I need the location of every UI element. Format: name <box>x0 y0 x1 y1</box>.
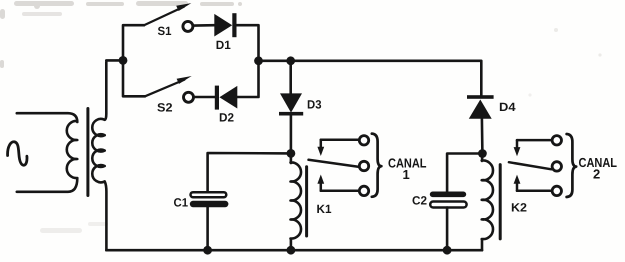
wire: node to transformer secondary <box>106 59 123 62</box>
node: D1/D2 bus junction <box>254 56 263 65</box>
svg-text:C2: C2 <box>412 194 427 208</box>
relay K2 contact: pole blade <box>509 162 552 169</box>
node: C1 bottom junction <box>203 246 212 255</box>
diode D1 <box>214 13 236 37</box>
relay K2 contact: bottom fixed <box>517 190 551 193</box>
node: C2 bottom junction <box>443 246 452 255</box>
diode D4 <box>467 95 494 119</box>
relay coil K1 <box>291 153 302 250</box>
node: D3/C1/K1 junction <box>287 149 296 158</box>
relay K2 contact: top arrow <box>514 140 521 156</box>
svg-text:2: 2 <box>593 167 600 182</box>
transformer T1 secondary winding <box>92 62 106 250</box>
node: K1 bottom junction <box>287 246 296 255</box>
switch S2 blade <box>145 80 185 97</box>
capacitor C1 <box>190 192 229 207</box>
relay K2 contact: top terminal <box>552 136 561 145</box>
switch S2 contact terminal <box>184 92 194 102</box>
relay K1 core <box>305 167 308 236</box>
relay K2 contact: pole terminal <box>552 162 561 171</box>
svg-text:D4: D4 <box>499 100 516 114</box>
switch S1 contact terminal <box>183 21 193 31</box>
capacitor C2 <box>430 192 467 208</box>
svg-text:C1: C1 <box>174 196 189 210</box>
relay K1 contact: bottom arrow <box>317 175 324 191</box>
wire: K2 node to C2 <box>447 154 482 192</box>
svg-text:D1: D1 <box>216 38 231 52</box>
relay K1 contact: pole blade <box>309 160 359 167</box>
wire: S1 to D1 <box>194 24 214 27</box>
svg-text:D3: D3 <box>307 97 322 111</box>
wire: K1 node to C1 <box>208 153 291 192</box>
relay K1 contact: bottom fixed <box>321 189 358 192</box>
node: switch branch junction <box>119 56 128 65</box>
relay K2 contact: bottom terminal <box>552 186 561 195</box>
relay K2 contact: top fixed <box>517 139 551 142</box>
relay K1 contact: pole terminal <box>359 161 368 170</box>
wire: C2 to bottom bus <box>446 208 449 251</box>
relay K1 contact: top terminal <box>359 136 368 145</box>
wire: D1 to right vertical down to D2 <box>237 25 259 97</box>
transformer T1 core <box>86 109 89 196</box>
relay K2 contact: bottom arrow <box>514 175 521 191</box>
switch S2 arrowhead <box>177 76 192 84</box>
relay K1 contact: top fixed <box>321 139 358 142</box>
AC plug source <box>8 142 27 165</box>
relay K1 contact: top arrow <box>317 140 324 156</box>
wire: bus junction down to D3 <box>289 61 292 94</box>
svg-text:S2: S2 <box>157 100 173 114</box>
switch S1 blade <box>144 7 184 26</box>
wire: S1/S2 branch vertical <box>123 25 145 96</box>
brace CANAL 2 <box>567 134 577 197</box>
wire: D4 to K2 node <box>481 119 484 154</box>
diode D2 <box>215 86 238 110</box>
wire: D3 to K1 node <box>290 115 293 153</box>
transformer T1 primary winding <box>17 113 78 192</box>
label CANAL 1 <box>388 155 427 182</box>
node: D4/C2/K2 junction <box>478 149 487 158</box>
svg-text:K2: K2 <box>511 200 527 214</box>
node: D3 bus junction <box>286 56 295 65</box>
svg-text:D2: D2 <box>219 111 234 125</box>
wire: S2 to D2 <box>195 96 216 99</box>
svg-text:1: 1 <box>403 167 410 182</box>
label CANAL 2 <box>579 155 618 182</box>
brace CANAL 1 <box>372 134 382 197</box>
svg-text:S1: S1 <box>158 24 172 38</box>
wire: C1 to bottom bus <box>206 207 209 250</box>
diode D3 <box>279 93 303 115</box>
relay K1 contact: bottom terminal <box>359 186 368 195</box>
relay coil K2 <box>482 154 493 251</box>
relay K2 core <box>499 165 502 239</box>
svg-text:K1: K1 <box>317 202 332 216</box>
wire: bottom bus <box>106 249 482 252</box>
switch S1 arrowhead <box>176 3 191 11</box>
wire: top bus to D4 branch <box>259 61 482 96</box>
